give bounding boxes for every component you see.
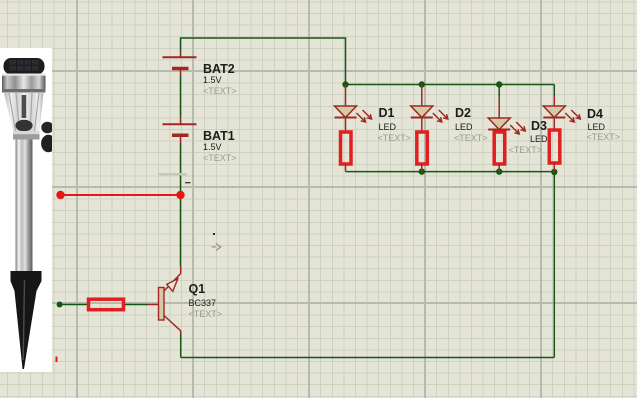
resistor (D1 branch) [341, 132, 352, 164]
label D1 text [378, 134, 412, 143]
label D3 text [509, 146, 543, 155]
wire: D4 to rail [553, 163, 555, 172]
label Q1 [189, 283, 206, 296]
gray arrow artifact [212, 243, 221, 250]
wire: D1 to rail [345, 164, 347, 172]
wire: D3 to rail [498, 164, 500, 172]
resistor (D4 branch) [549, 130, 560, 163]
wire: transistor collector down [180, 331, 182, 358]
LED D2 [411, 85, 448, 132]
label D2 [455, 107, 471, 120]
black dot artifact [213, 233, 215, 235]
node: base wire dot [57, 302, 63, 308]
label D3 LED [530, 135, 548, 144]
resistor (D3 branch) [494, 132, 505, 164]
red wire to battery node [61, 194, 181, 196]
wire: base right [125, 304, 148, 306]
node: rail dot D3 top [496, 81, 502, 87]
solar lamp photo [0, 48, 56, 372]
battery BAT2 [163, 51, 197, 76]
battery BAT1 [163, 117, 197, 143]
resistor (D2 branch) [417, 132, 428, 164]
wire: base left [60, 304, 87, 306]
label BAT2 [203, 63, 235, 76]
transistor Q1 [148, 266, 181, 335]
LED D3 [488, 85, 525, 135]
black dash mark [185, 182, 191, 184]
LED D4 [543, 85, 580, 131]
label D2 LED [455, 123, 473, 132]
label BAT2 text [203, 87, 237, 96]
wire: bottom LED rail [346, 171, 555, 173]
red junction dot on battery wire [176, 191, 184, 199]
wire: right side vertical [553, 172, 555, 358]
node: rail dot D1 [342, 81, 348, 87]
red pin mark lower left [56, 357, 58, 363]
resistor R-base (red box) [89, 299, 124, 310]
label BAT1 text [203, 154, 237, 163]
label D4 [587, 108, 603, 121]
label D3 [531, 120, 547, 133]
wire: battery chain vertical [180, 38, 182, 266]
wire: D2 to rail [421, 164, 423, 172]
gray artifact segment [158, 173, 187, 175]
label D4 text [587, 133, 621, 142]
node: rail dot D3 bottom [496, 168, 502, 174]
node: rail dot D2 top [419, 81, 425, 87]
node: rail dot right corner [551, 169, 557, 175]
label BAT1 value [203, 143, 222, 152]
wire: bottom rail [181, 357, 555, 359]
node: rail dot D2 bottom [419, 168, 425, 174]
label BAT2 value [203, 76, 222, 85]
wire: top LED rail [346, 84, 555, 86]
label Q1 type [189, 299, 217, 308]
label D4 LED [588, 123, 606, 132]
label D2 text [454, 134, 488, 143]
red junction dot left [56, 191, 64, 199]
label Q1 text [189, 310, 223, 319]
label BAT1 [203, 130, 235, 143]
label D1 LED [379, 123, 397, 132]
LED D1 [335, 85, 372, 132]
label D1 [379, 107, 395, 120]
wire: top horizontal from battery to LED rail [180, 38, 346, 85]
